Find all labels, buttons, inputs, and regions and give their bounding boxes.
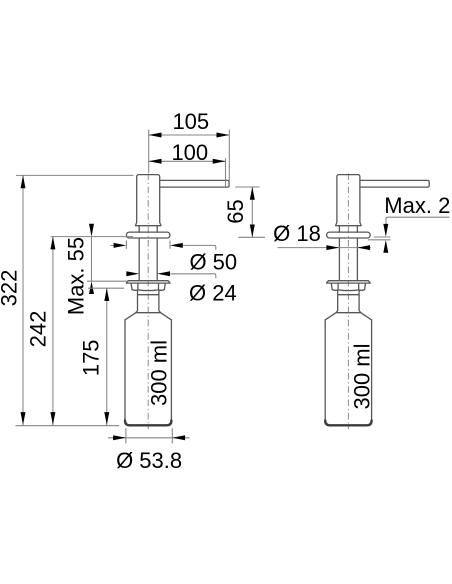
svg-text:Ø 50: Ø 50 — [189, 250, 237, 275]
svg-text:300 ml: 300 ml — [147, 340, 172, 406]
svg-text:Ø 53.8: Ø 53.8 — [116, 448, 182, 473]
svg-text:Ø 24: Ø 24 — [189, 280, 237, 305]
svg-text:Max. 55: Max. 55 — [64, 237, 89, 315]
left view: dispenser front — [125, 174, 229, 430]
right view: dispenser side — [325, 174, 429, 430]
svg-text:65: 65 — [223, 199, 248, 223]
svg-text:175: 175 — [78, 339, 103, 376]
svg-text:105: 105 — [172, 109, 209, 134]
svg-text:300 ml: 300 ml — [350, 343, 375, 409]
svg-text:Ø 18: Ø 18 — [273, 221, 321, 246]
svg-text:Max. 2: Max. 2 — [384, 193, 450, 218]
svg-text:322: 322 — [0, 270, 21, 307]
bottom extension line — [16, 425, 120, 427]
svg-text:242: 242 — [25, 311, 50, 348]
